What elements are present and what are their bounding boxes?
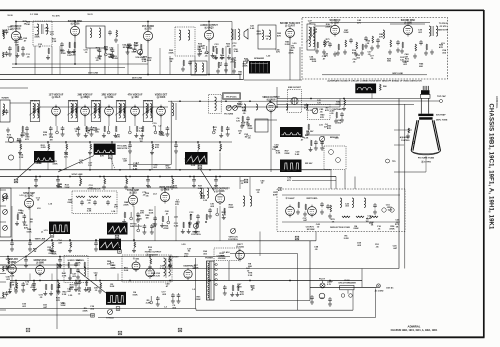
svg-text:PICTURE TUBE: PICTURE TUBE — [418, 158, 435, 160]
svg-text:DEFL YOKE: DEFL YOKE — [436, 120, 448, 122]
svg-text:RECT: RECT — [237, 244, 243, 246]
svg-text:HORIZ OSC: HORIZ OSC — [34, 260, 47, 262]
svg-text:B BOOST: B BOOST — [169, 257, 179, 259]
svg-text:SPEAKER: SPEAKER — [254, 57, 265, 60]
svg-text:VIDEO DET: VIDEO DET — [155, 94, 168, 96]
svg-text:SAWTOOTH: SAWTOOTH — [130, 225, 142, 228]
svg-text:TO PIN 3: TO PIN 3 — [439, 23, 448, 25]
svg-text:R93150K: R93150K — [131, 49, 137, 53]
svg-text:53-31: 53-31 — [87, 14, 93, 16]
svg-text:R53470K: R53470K — [30, 285, 36, 289]
svg-text:TOP CAP: TOP CAP — [437, 95, 446, 98]
svg-text:R56470K: R56470K — [389, 226, 395, 230]
svg-text:3RD VIDEO IF: 3RD VIDEO IF — [101, 94, 117, 96]
svg-text:TP2 4.5MC: TP2 4.5MC — [117, 145, 128, 148]
svg-text:SYNC SEP: SYNC SEP — [23, 193, 35, 195]
svg-text:4TH VIDEO IF: 4TH VIDEO IF — [128, 93, 143, 96]
svg-text:ION TRAP: ION TRAP — [436, 114, 446, 117]
svg-text:POWER: POWER — [205, 258, 213, 260]
svg-text:TP9: TP9 — [392, 161, 395, 163]
svg-text:R73220K: R73220K — [167, 264, 173, 268]
svg-text:R64330K: R64330K — [288, 49, 294, 54]
svg-text:1ST VIDEO IF: 1ST VIDEO IF — [49, 94, 64, 96]
svg-text:VERT DEFL: VERT DEFL — [306, 198, 318, 200]
svg-text:2ND VIDEO IF: 2ND VIDEO IF — [77, 94, 93, 96]
svg-text:W5 90V: W5 90V — [305, 163, 313, 165]
svg-text:R99220K: R99220K — [67, 200, 73, 204]
svg-text:R-1 47K: R-1 47K — [52, 15, 60, 18]
svg-text:SYNC LINE: SYNC LINE — [71, 174, 83, 176]
svg-text:VERT LINE: VERT LINE — [35, 238, 46, 240]
svg-text:AUDIO OUTPUT: AUDIO OUTPUT — [200, 24, 218, 27]
svg-text:OF 6T8: OF 6T8 — [440, 26, 448, 28]
svg-text:R253.3K: R253.3K — [87, 208, 92, 212]
svg-text:SOUND IF: SOUND IF — [330, 20, 342, 22]
svg-text:H HOLD: H HOLD — [106, 318, 114, 320]
svg-text:DEFLECTION YOKE: DEFLECTION YOKE — [330, 227, 350, 229]
svg-text:R91330K: R91330K — [195, 296, 201, 300]
svg-text:R84330K: R84330K — [335, 101, 341, 106]
svg-text:R97100K: R97100K — [343, 30, 349, 34]
svg-text:SOUND IF: SOUND IF — [11, 26, 23, 28]
svg-text:2B 402-5: 2B 402-5 — [144, 100, 153, 103]
svg-text:CIRCUIT BREAKER: CIRCUIT BREAKER — [338, 281, 356, 284]
svg-text:R64470K: R64470K — [163, 224, 169, 229]
svg-text:R672.2M: R672.2M — [237, 284, 243, 288]
svg-text:115V AC: 115V AC — [386, 287, 394, 290]
svg-text:PILOT: PILOT — [319, 279, 326, 281]
svg-text:ALTERNATE SOUND IF CIRCUIT CON: ALTERNATE SOUND IF CIRCUIT CONNECTIONS W… — [327, 80, 422, 83]
svg-text:CONTROL: CONTROL — [191, 234, 202, 236]
svg-text:CHASSIS 19B1, 19C1, 19F1, A, 1: CHASSIS 19B1, 19C1, 19F1, A, 19H1, 19K1 — [488, 104, 494, 231]
svg-text:R783.3K: R783.3K — [248, 273, 253, 277]
svg-text:TUNER: TUNER — [1, 98, 9, 100]
svg-text:175V LINE: 175V LINE — [88, 73, 99, 75]
svg-text:SEE NOTE 3: SEE NOTE 3 — [117, 148, 130, 150]
svg-text:2B 402-1: 2B 402-1 — [31, 100, 40, 103]
svg-text:GREY LINE: GREY LINE — [392, 73, 403, 75]
svg-text:ADMIRAL: ADMIRAL — [495, 96, 499, 109]
svg-text:AQUADAG: AQUADAG — [400, 136, 410, 139]
svg-text:CHASSIS 19B1, 19C1, 19F1, A, 1: CHASSIS 19B1, 19C1, 19F1, A, 19H1, 19K1 — [391, 329, 438, 332]
svg-text:AC CORD: AC CORD — [375, 290, 384, 293]
svg-text:VERT OUTPUT: VERT OUTPUT — [212, 188, 229, 190]
svg-text:W4 30V: W4 30V — [306, 130, 314, 133]
svg-text:TP7 60: TP7 60 — [130, 224, 137, 226]
svg-text:2B 402-3: 2B 402-3 — [92, 100, 101, 103]
svg-text:PIX IF AGC: PIX IF AGC — [226, 95, 237, 98]
svg-text:SOUND DISC: SOUND DISC — [401, 20, 416, 22]
svg-text:R452.2M: R452.2M — [285, 41, 291, 46]
svg-text:SYNC AMP: SYNC AMP — [127, 189, 140, 192]
svg-text:53-30: 53-30 — [7, 15, 13, 17]
svg-text:C-1 1500: C-1 1500 — [30, 14, 39, 16]
svg-text:PICTURE: PICTURE — [224, 114, 233, 116]
svg-text:HORIZ OUTPUT: HORIZ OUTPUT — [145, 252, 162, 254]
svg-text:R695.6K: R695.6K — [191, 162, 196, 166]
svg-text:R97100K: R97100K — [56, 184, 62, 188]
svg-text:250V LINE: 250V LINE — [132, 78, 143, 80]
svg-text:HORIZ AFC: HORIZ AFC — [6, 258, 19, 261]
svg-text:KINE SOCKET: KINE SOCKET — [288, 87, 302, 89]
svg-text:SEE NOTE: SEE NOTE — [438, 30, 449, 32]
svg-text:ADMIRAL: ADMIRAL — [408, 325, 421, 329]
svg-text:R242.2M: R242.2M — [220, 54, 225, 59]
svg-text:R40100K: R40100K — [60, 302, 66, 307]
svg-text:R372.2M: R372.2M — [198, 185, 203, 189]
svg-text:R903.3K: R903.3K — [87, 288, 92, 292]
svg-text:COATING: COATING — [401, 139, 410, 142]
svg-text:R143.3K: R143.3K — [19, 154, 24, 159]
svg-text:2B 402-4: 2B 402-4 — [117, 100, 126, 103]
svg-text:SOUND TAKE OFF: SOUND TAKE OFF — [280, 22, 301, 25]
svg-text:R48220K: R48220K — [123, 201, 129, 206]
svg-text:2B 402-2: 2B 402-2 — [69, 100, 78, 103]
